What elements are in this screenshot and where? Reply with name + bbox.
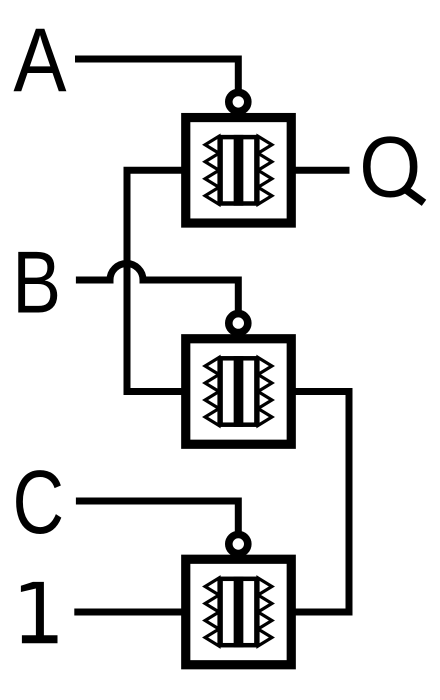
svg-text:C: C [13,452,65,553]
wire: G1 output to Q [290,167,350,174]
transmission gate G3 [186,559,292,665]
wire: B to G2 enable bubble (with hop over rail) [76,264,238,319]
wire: constant 1 to G3 input [74,609,186,616]
inversion bubble G3 [229,535,248,554]
node Q label [359,119,421,216]
svg-text:B: B [12,233,61,332]
constant 1 label [21,582,58,643]
transmission gate G2 [186,339,292,445]
node B label [12,233,61,332]
inversion bubble G2 [229,314,248,333]
node A label [13,11,66,112]
svg-text:A: A [13,11,66,112]
node C label [13,452,65,553]
wire: C to G3 enable bubble [76,501,238,540]
Q tail stroke [403,188,424,203]
wire: node X rail joining G1 and G2 left inputs [127,170,186,391]
wire: G2 output to G3 output rail [290,392,349,613]
inversion bubble G1 [229,92,248,111]
transmission gate G1 [186,118,292,224]
wire: A to G1 enable bubble [75,59,238,98]
svg-text:O: O [359,119,421,216]
